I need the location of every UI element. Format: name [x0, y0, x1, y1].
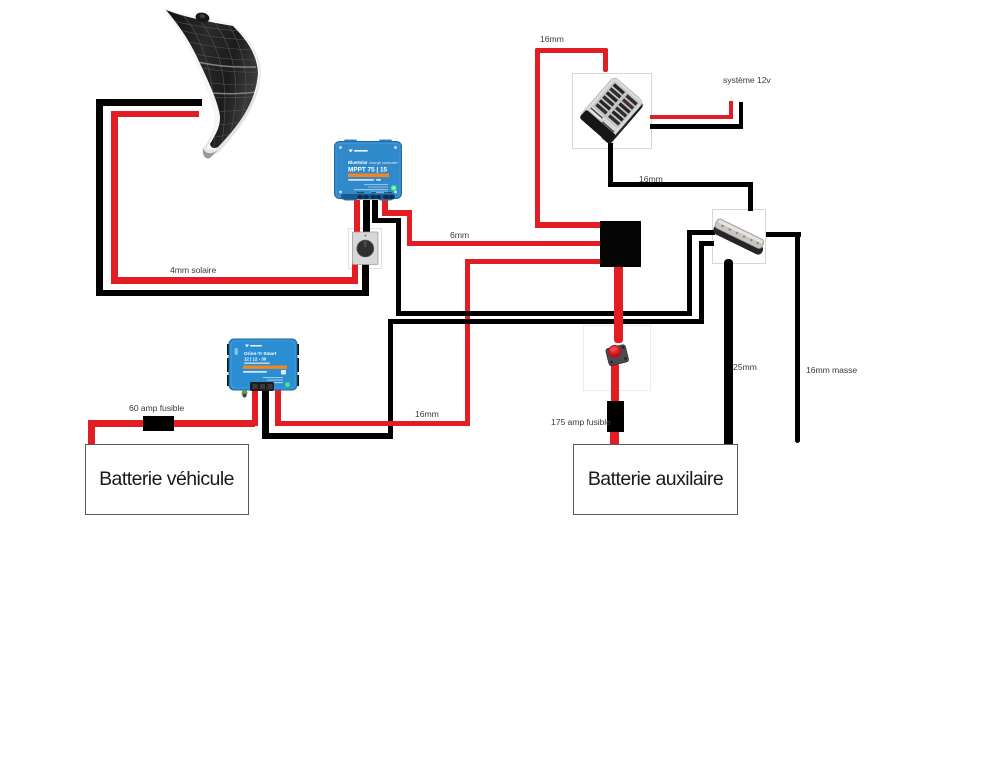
- wire Orion minus black vertical up: [388, 319, 394, 439]
- wire 16mm red vertical from junction box down to Orion output (under black): [465, 259, 470, 427]
- wire Orion minus black vertical down: [262, 388, 269, 439]
- wire MPPT PV black vertical into switch: [363, 200, 370, 234]
- wire 6mm red horizontal to junction box: [407, 241, 602, 247]
- wire black H2 Orion to bus bar horizontal: [388, 319, 705, 324]
- solar panel flexible: [150, 3, 270, 163]
- wire MPPT battery black vertical long: [396, 218, 402, 316]
- junction box on top: [195, 11, 211, 23]
- wire red 175A fuse to aux battery vertical: [610, 432, 619, 449]
- wire solar panel black horizontal bottom: [96, 290, 369, 297]
- victron logo: [349, 150, 353, 153]
- wire 16mm red horizontal into junction box top: [535, 222, 602, 228]
- wire 60 amp red horizontal: [88, 420, 255, 427]
- label 16mm bottom: [415, 409, 439, 419]
- label systeme 12v: [723, 75, 771, 85]
- wire MPPT load red horizontal jog: [382, 210, 413, 216]
- PV isolator switch: [348, 228, 382, 268]
- box Batterie auxilaire: [573, 444, 738, 515]
- wire 16mm red bottom horizontal: [275, 421, 471, 426]
- fuse 60 amp fusible: [143, 416, 174, 431]
- wire Orion input red vertical: [252, 389, 258, 426]
- wire 16mm red vertical right to fuse box: [603, 48, 609, 72]
- wire bus bar right black horizontal: [766, 232, 801, 237]
- fuse column left: [613, 83, 625, 94]
- victron logo: [245, 345, 249, 348]
- cell grid row lines: [164, 19, 260, 138]
- heatsink fins left: [227, 344, 231, 355]
- photo frame fuse box: [572, 73, 652, 149]
- box Batterie vehicule: [85, 444, 249, 515]
- label 175 amp fusible: [551, 417, 611, 427]
- wire 16mm masse black vertical: [795, 232, 801, 444]
- wire solar panel red horizontal bottom: [111, 277, 358, 284]
- svg-text:MPPT 75 | 15: MPPT 75 | 15: [348, 167, 388, 174]
- wire solar panel red horizontal top: [111, 111, 199, 118]
- wire systeme 12v black horizontal: [650, 124, 743, 129]
- green LED: [391, 185, 397, 191]
- wire systeme 12v red vertical: [729, 101, 734, 120]
- svg-text:12 | 12 - 30: 12 | 12 - 30: [244, 357, 267, 362]
- battery disconnect switch: [598, 336, 638, 370]
- fuse box 12 way: [572, 73, 652, 149]
- wire 25mm black vertical bus bar to aux battery: [724, 259, 733, 448]
- green LED: [285, 382, 290, 387]
- dark right side face: [600, 96, 645, 145]
- wire systeme 12v black vertical: [739, 102, 744, 129]
- wire MPPT battery black vertical: [372, 200, 378, 223]
- fuse 175 amp fusible: [607, 401, 625, 433]
- wire black H2 vertical up to bus bar: [699, 241, 705, 325]
- orange bar: [243, 366, 287, 369]
- ground screw: [242, 390, 248, 396]
- wire black H1 vertical up to bus bar: [687, 230, 693, 316]
- translucent cover body: [579, 76, 644, 142]
- black lower base: [579, 109, 616, 143]
- wire solar panel black horizontal top: [96, 99, 202, 106]
- photo frame bus bar: [712, 209, 766, 264]
- wire red battery switch to 175A fuse vertical: [611, 363, 620, 401]
- label 16mm top left: [540, 34, 564, 44]
- spec row: [243, 371, 267, 373]
- wire fuse box 16mm black vertical: [608, 143, 614, 187]
- bluetooth mark: [235, 348, 239, 355]
- wire MPPT load red vertical: [382, 200, 388, 216]
- wire 16mm red top horizontal: [535, 48, 609, 54]
- wire MPPT PV red vertical into switch: [354, 200, 360, 234]
- wire Orion output red vertical: [275, 389, 281, 426]
- label 4mm solaire: [170, 265, 216, 275]
- fuse column right: [625, 94, 637, 105]
- wire fuse box 16mm black horizontal: [608, 182, 754, 188]
- wire systeme 12v red horizontal: [650, 115, 733, 120]
- wire black H2 stub into bus bar: [699, 241, 714, 247]
- terminal strip: [341, 194, 395, 200]
- Orion-Tr Smart DC-DC charger: [227, 338, 299, 398]
- label 6mm: [450, 230, 469, 240]
- label 16mm masse: [806, 365, 857, 375]
- bottom terminal block: [250, 382, 274, 391]
- photo frame battery switch: [583, 325, 651, 391]
- wire solar panel red vertical up to switch: [352, 262, 359, 284]
- orange bar: [348, 174, 389, 178]
- metal contact strips: [589, 106, 604, 120]
- wire solar panel black vertical left: [96, 99, 103, 296]
- svg-text:Orion-Tr Smart: Orion-Tr Smart: [244, 351, 277, 356]
- wire Orion minus black horizontal: [262, 433, 393, 439]
- label 16mm fuse box ground: [639, 174, 663, 184]
- wire black H1 MPPT to bus bar horizontal: [396, 311, 690, 316]
- white backsheet edge: [162, 7, 261, 154]
- bottom edge sliver: [203, 148, 218, 158]
- photo frame PV isolator switch: [348, 228, 382, 269]
- wire solar panel black vertical up to switch: [362, 262, 369, 296]
- wire 60 amp red vertical to vehicle battery: [88, 420, 95, 447]
- light reflections: [188, 60, 256, 94]
- wire red junction box to battery switch vertical: [614, 266, 623, 343]
- wire black H1 stub into bus bar: [687, 230, 715, 236]
- wire fuse box 16mm black vertical to bus bar: [748, 182, 754, 211]
- wire junction red horizontal from vertical to box: [467, 259, 601, 265]
- wire MPPT battery black horizontal jog: [372, 218, 401, 224]
- bus bar: [712, 209, 766, 263]
- junction box positive distribution block: [600, 221, 641, 267]
- small print right: [263, 377, 283, 378]
- MPPT 75/15 charge controller: [334, 139, 402, 201]
- wire solar panel red vertical left: [111, 111, 118, 284]
- spec line: [348, 179, 374, 181]
- dark cell area: [166, 10, 258, 148]
- label 60 amp fusible: [129, 403, 184, 413]
- wire 16mm red vertical left to junction box: [535, 48, 541, 228]
- label 25mm: [733, 362, 757, 372]
- small print: [364, 184, 388, 185]
- svg-text:BlueSolar: BlueSolar: [348, 160, 368, 165]
- heatsink fins right: [295, 344, 299, 355]
- wire MPPT load red vertical 2: [407, 210, 413, 246]
- cell grid column lines: [183, 15, 246, 147]
- svg-text:charge controller: charge controller: [369, 160, 399, 165]
